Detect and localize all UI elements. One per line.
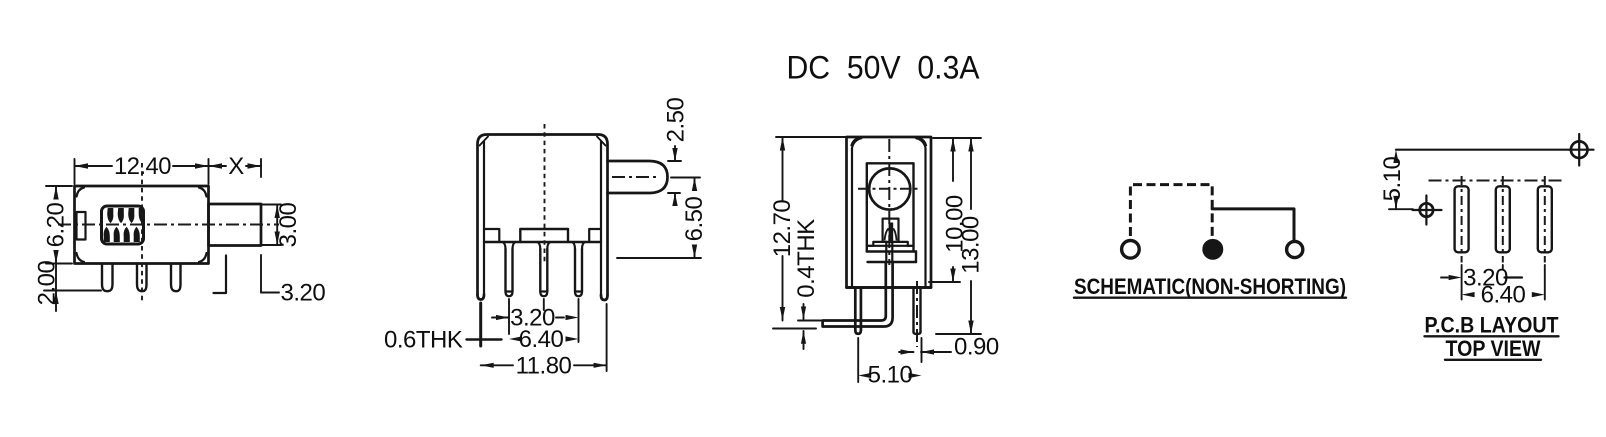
- corner fillet bottom-left: [77, 253, 85, 262]
- body bottom edge: [484, 241, 601, 243]
- datum mark: [214, 256, 227, 294]
- right wall inner line: [924, 148, 926, 288]
- left bottom step: [484, 229, 499, 242]
- leader 3.20 (shaft offset): [261, 255, 325, 307]
- circle horizontal centerline: [858, 188, 919, 190]
- terminal 1 open circle: [1122, 241, 1140, 259]
- pin 3 (front): [572, 242, 585, 296]
- svg-text:X: X: [228, 153, 244, 180]
- dimension 12.40: [75, 153, 209, 180]
- top reference line: [1396, 149, 1594, 151]
- svg-text:6.40: 6.40: [519, 326, 564, 353]
- top-left chamfer: [480, 137, 489, 146]
- dimension 3.20 pcb: [1441, 265, 1522, 292]
- terminal 3 open circle: [1287, 241, 1303, 257]
- shaft (top view): [209, 204, 262, 246]
- top target symbol: [1571, 134, 1588, 166]
- svg-text:11.80: 11.80: [516, 352, 572, 379]
- terminal 2 common filled: [1203, 240, 1222, 259]
- svg-text:TOP VIEW: TOP VIEW: [1446, 336, 1541, 361]
- corner fillet top-right: [199, 188, 207, 197]
- right wall inner line: [600, 142, 602, 296]
- horizontal centerline pcb: [1429, 180, 1562, 182]
- inner frame: [867, 163, 914, 251]
- svg-text:3.00: 3.00: [275, 202, 302, 247]
- dimension 6.40 pcb: [1462, 282, 1545, 309]
- pin 2 (top view): [137, 264, 147, 292]
- svg-text:SCHEMATIC(NON-SHORTING): SCHEMATIC(NON-SHORTING): [1074, 274, 1346, 299]
- corner fillet bottom-right: [199, 253, 207, 262]
- body outline side view: [847, 137, 932, 288]
- svg-text:6.40: 6.40: [1481, 282, 1526, 309]
- left wing step: [867, 242, 883, 246]
- left leg tip: [478, 295, 485, 300]
- dimension 2.00: [34, 260, 102, 311]
- dimension 6.20: [43, 186, 70, 264]
- pin 3 (top view): [171, 264, 181, 292]
- pad 2: [1496, 176, 1510, 263]
- actuator window: [102, 206, 144, 244]
- dimension 3.20: [492, 305, 579, 332]
- dimension 13.00: [936, 138, 985, 334]
- base band line: [867, 245, 914, 247]
- dimension 3.00: [262, 202, 302, 247]
- label 0.6THK: [384, 327, 502, 354]
- shaft (front): [608, 161, 668, 193]
- svg-text:6.50: 6.50: [681, 196, 708, 241]
- dimension X: [209, 153, 262, 180]
- actuator serrations bottom row: [104, 227, 140, 242]
- corner arc right: [916, 138, 926, 149]
- side detent notch: [77, 212, 86, 240]
- actuator housing: [883, 219, 899, 242]
- dimension 5.10 pcb: [1379, 150, 1413, 210]
- extension lines bottom: [481, 299, 607, 371]
- center boss: [520, 229, 568, 242]
- svg-text:0.4THK: 0.4THK: [793, 219, 820, 298]
- shaft centerline: [612, 176, 659, 178]
- svg-text:2.00: 2.00: [34, 260, 61, 305]
- right wing step: [899, 242, 914, 246]
- dimension 10.00: [929, 138, 981, 282]
- center bent pin: [823, 262, 893, 327]
- dimension 6.40: [509, 326, 579, 353]
- dimension 6.50: [617, 178, 708, 259]
- switch body top view: [75, 186, 209, 264]
- svg-text:P.C.B LAYOUT: P.C.B LAYOUT: [1425, 313, 1559, 338]
- contact spring detail: [885, 223, 897, 242]
- vertical centerline: [888, 139, 890, 265]
- schematic caption: [1074, 274, 1346, 299]
- svg-text:5.10: 5.10: [868, 362, 913, 389]
- svg-text:13.00: 13.00: [958, 216, 985, 274]
- corner arc left: [851, 138, 861, 149]
- extension lines 12.40: [75, 159, 262, 184]
- left straight leg: [855, 288, 861, 334]
- right leg: [914, 281, 921, 347]
- top-right chamfer: [597, 137, 606, 146]
- left target symbol: [1413, 196, 1442, 225]
- right leg tip: [601, 295, 608, 300]
- vertical centerline: [544, 124, 546, 262]
- base plate: [867, 252, 916, 263]
- wire dashed pole to terminal 1: [1130, 185, 1212, 240]
- svg-text:3.20: 3.20: [281, 280, 326, 307]
- corner fillet top-left: [77, 188, 85, 197]
- bottom edge: [847, 286, 932, 289]
- pin 1 (front): [503, 242, 516, 296]
- pad 1: [1455, 176, 1469, 263]
- dimension 0.4THK: [793, 219, 821, 349]
- pin 1 (top view): [102, 264, 113, 292]
- svg-text:5.10: 5.10: [1379, 156, 1406, 201]
- actuator serrations top row: [107, 208, 143, 223]
- dimension 11.80: [481, 352, 607, 379]
- svg-text:0.90: 0.90: [954, 334, 999, 361]
- svg-text:12.40: 12.40: [114, 153, 171, 180]
- dimension 12.70: [769, 137, 845, 329]
- svg-text:DC 50V 0.3A: DC 50V 0.3A: [787, 50, 981, 86]
- vertical centerline: [141, 163, 143, 302]
- svg-text:6.20: 6.20: [43, 202, 70, 247]
- pad extension lines: [1462, 265, 1545, 300]
- svg-text:2.50: 2.50: [663, 97, 690, 142]
- body outline front view: [478, 135, 608, 295]
- dimension 5.10: [858, 338, 921, 389]
- horizontal centerline: [58, 224, 279, 226]
- post continuation: [886, 242, 892, 262]
- pcb captions: [1425, 313, 1559, 362]
- extension lines 6.20: [46, 186, 72, 264]
- dimension 2.50: [663, 97, 690, 206]
- pad 3: [1538, 176, 1552, 263]
- left wall inner line: [851, 148, 853, 288]
- pin 2 (front): [537, 242, 550, 296]
- svg-text:0.6THK: 0.6THK: [384, 327, 463, 354]
- dimension 0.90: [899, 334, 999, 363]
- svg-text:12.70: 12.70: [769, 200, 796, 258]
- wire solid pole to terminal 3: [1212, 209, 1294, 241]
- left wall inner line: [483, 142, 485, 295]
- right bottom step: [589, 229, 601, 242]
- shaft circle: [869, 168, 910, 209]
